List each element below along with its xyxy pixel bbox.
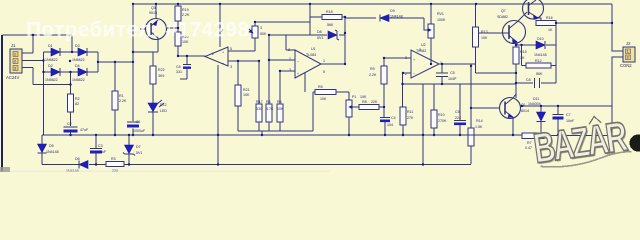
transistor Q3 9015 [146, 4, 167, 40]
svg-text:1N4148: 1N4148 [46, 150, 59, 154]
svg-text:5: 5 [323, 70, 325, 74]
wire U2 minus input [403, 72, 411, 74]
svg-text:1N5822: 1N5822 [72, 58, 85, 62]
wire J1 pin2 [22, 60, 44, 62]
zener D8 5V1 [269, 30, 345, 40]
resistor R11 27K [400, 107, 414, 135]
wire U1 pin8 stub [286, 35, 295, 50]
wire bottom bus [42, 164, 471, 166]
wire J1 pin3 [22, 68, 71, 85]
wire U2 minus leg [402, 73, 404, 107]
wire bus vertical link 1 [217, 65, 219, 165]
capacitor C2 47uF [64, 122, 89, 135]
svg-text:1: 1 [627, 50, 629, 54]
svg-text:10K: 10K [320, 97, 327, 101]
svg-text:100K: 100K [437, 18, 446, 22]
svg-text:R11: R11 [407, 110, 413, 114]
diode D3 1N5822 [72, 44, 87, 62]
svg-text:R21: R21 [243, 88, 250, 92]
LED D12 [148, 100, 167, 135]
diode D2 1N5822 [45, 64, 60, 82]
svg-text:+: + [222, 51, 224, 55]
wire right mini vertical [555, 23, 557, 83]
potentiometer P1 10K [346, 92, 367, 135]
svg-text:C5: C5 [450, 71, 455, 75]
svg-text:3K9: 3K9 [158, 74, 164, 78]
svg-text:5: 5 [230, 47, 232, 51]
svg-text:R8: R8 [362, 100, 367, 104]
svg-text:3: 3 [230, 65, 232, 69]
wire C5b top [459, 84, 461, 120]
transistor Q7 top [523, 0, 544, 20]
watermark bazar dot [630, 135, 640, 152]
wire bridge right rail [97, 52, 99, 72]
svg-text:D3: D3 [75, 44, 80, 48]
svg-text:D8: D8 [317, 30, 322, 34]
wire Q7 links [517, 12, 541, 45]
svg-text:U1: U1 [311, 47, 316, 51]
svg-text:10K: 10K [481, 36, 488, 40]
zener D7 5V1 [123, 135, 142, 165]
potentiometer RV1 100K [424, 4, 446, 64]
wire Q3 collector row [133, 51, 158, 53]
svg-text:Потребител: #174298: Потребител: #174298 [26, 19, 249, 42]
op-amp U3 [205, 29, 232, 69]
svg-text:330: 330 [256, 107, 262, 111]
svg-text:224: 224 [455, 116, 461, 120]
svg-text:10K: 10K [243, 93, 250, 97]
svg-text:56K: 56K [536, 72, 543, 76]
wire R5 left leg [312, 92, 314, 131]
svg-text:R19: R19 [182, 8, 189, 12]
resistor R14 1.5K [468, 119, 483, 164]
svg-text:R10: R10 [438, 113, 445, 117]
wire AC top run [3, 35, 73, 52]
svg-text:0.47: 0.47 [525, 146, 532, 150]
svg-text:56K: 56K [327, 23, 334, 27]
svg-text:4.7K: 4.7K [266, 107, 274, 111]
wire bridge bottom rail [44, 71, 99, 73]
svg-text:D9: D9 [390, 9, 395, 13]
svg-text:104: 104 [387, 123, 393, 127]
wire Q3 collector down [157, 40, 159, 52]
wire base to divider [140, 28, 178, 29]
svg-text:R7: R7 [527, 141, 532, 145]
svg-text:2: 2 [212, 52, 214, 56]
svg-text:1: 1 [323, 59, 325, 63]
svg-text:1N5822: 1N5822 [45, 78, 58, 82]
svg-text:2.2K: 2.2K [369, 73, 377, 77]
wire feedback right vertical [344, 17, 346, 64]
wire U1 plus input [280, 70, 295, 72]
resistor R15 1K [513, 45, 527, 98]
diode D9 1N4148 [345, 9, 424, 22]
photo left edge line [1, 35, 3, 172]
svg-text:8014: 8014 [521, 109, 529, 113]
resistor R2 82 [68, 94, 80, 126]
resistor R16 1K [536, 16, 556, 32]
svg-text:AC24V: AC24V [6, 75, 19, 80]
svg-text:+: + [413, 58, 415, 62]
resistor R1 2.2K [112, 91, 127, 135]
resistor R22 3K9 [150, 52, 165, 103]
svg-text:D7: D7 [136, 145, 141, 149]
wire upper mid row [255, 21, 310, 23]
wire output chain vertical [470, 64, 472, 128]
svg-text:3: 3 [260, 26, 262, 30]
svg-text:C7: C7 [566, 113, 571, 117]
wire emitter row R16 [556, 22, 612, 24]
svg-text:J2: J2 [626, 41, 631, 46]
svg-text:1N4148: 1N4148 [390, 15, 403, 19]
svg-text:1N4148: 1N4148 [534, 53, 547, 57]
svg-text:+: + [297, 72, 299, 76]
svg-text:10K: 10K [360, 95, 367, 99]
resistor R17 330 [256, 61, 263, 131]
wire U2 output [439, 63, 476, 65]
svg-text:J1: J1 [11, 43, 16, 48]
svg-text:R9: R9 [370, 67, 375, 71]
wire Q1 collector [513, 94, 516, 98]
svg-text:22K: 22K [371, 100, 378, 104]
svg-text:R17: R17 [256, 100, 263, 104]
svg-text:−: − [222, 62, 224, 66]
svg-text:LED: LED [160, 109, 167, 113]
svg-text:1000uF: 1000uF [133, 129, 146, 133]
wire bridge lower mid [70, 72, 72, 94]
resistor R18 56K [310, 10, 345, 27]
svg-text:TL082: TL082 [416, 49, 426, 53]
svg-text:R6: R6 [277, 100, 282, 104]
svg-text:2.2K: 2.2K [119, 99, 127, 103]
resistor R3 220 [106, 157, 124, 173]
resistor R5 10K [313, 85, 349, 101]
connector J2 CON2 [620, 41, 635, 68]
svg-text:1: 1 [14, 53, 16, 57]
svg-text:1N5822: 1N5822 [45, 58, 58, 62]
diode D5 1N4148 [38, 135, 59, 165]
svg-text:Q3: Q3 [151, 6, 156, 10]
wire J1 pin1 [22, 35, 33, 53]
wire right mid row [520, 105, 612, 107]
wire mid ground bus [42, 134, 522, 136]
resistor R13 10K [473, 4, 488, 73]
svg-text:CON2: CON2 [620, 63, 632, 68]
svg-text:C1: C1 [136, 120, 141, 124]
svg-text:U2: U2 [421, 43, 426, 47]
capacitor C5 224 [454, 110, 466, 135]
svg-text:3: 3 [14, 67, 16, 71]
svg-text:C8: C8 [526, 78, 531, 82]
wire main left vertical [132, 4, 134, 135]
svg-text:2: 2 [627, 56, 629, 60]
watermark bazar logo [531, 112, 633, 174]
svg-text:1N5822: 1N5822 [72, 78, 85, 82]
diode D10 1N4148 [516, 37, 556, 57]
wire resistor bottoms [238, 130, 313, 132]
wire U3 power pin [219, 4, 221, 47]
capacitor C1 1000uF [127, 120, 146, 133]
svg-text:C2: C2 [67, 122, 72, 126]
svg-text:9015: 9015 [149, 11, 157, 15]
svg-text:D2: D2 [48, 64, 53, 68]
svg-text:331: 331 [176, 70, 182, 74]
wire top bus [133, 3, 612, 5]
svg-text:C6: C6 [176, 65, 181, 69]
svg-text:R2: R2 [75, 97, 80, 101]
wire U3 minus input [228, 60, 259, 62]
wire feedback row [403, 84, 517, 110]
svg-text:10K: 10K [277, 107, 284, 111]
svg-text:D10: D10 [537, 37, 544, 41]
resistor R12 56K [522, 45, 557, 76]
svg-text:D12: D12 [160, 103, 167, 107]
wire Q1 base [471, 107, 500, 109]
wire bridge top rail [44, 51, 99, 53]
wire right drop to J2 pin1 [612, 4, 623, 51]
connector J1 [6, 43, 22, 80]
diode D11 1N4004 [528, 97, 546, 135]
wire U3 plus input [228, 50, 255, 52]
op-amp U1 TL084 [288, 47, 325, 78]
wire Q3 base link [140, 28, 146, 30]
svg-text:R12: R12 [535, 59, 542, 63]
resistor R21 10K [235, 61, 250, 131]
wire U1 minus input [269, 59, 295, 61]
wire U1 output [321, 63, 345, 65]
svg-text:1.5K: 1.5K [475, 125, 483, 129]
wire J2 pin2 run [612, 57, 623, 135]
wire U1 power down [304, 73, 306, 92]
svg-text:47uF: 47uF [80, 128, 89, 132]
resistor R20 10K [175, 21, 189, 56]
svg-text:104P: 104P [448, 77, 457, 81]
wire feedback left vertical [309, 4, 311, 35]
svg-text:R16: R16 [546, 16, 553, 20]
trimmer 50K [249, 22, 267, 51]
diode D6 1N4148 [66, 157, 88, 173]
svg-text:SD882: SD882 [497, 15, 508, 19]
wire bridge left rail [43, 52, 45, 135]
capacitor C7 10nF [553, 106, 575, 135]
resistor R9 2.2K [369, 58, 387, 117]
resistor R10 270K [431, 110, 447, 135]
svg-text:C3: C3 [98, 144, 103, 148]
svg-text:D5: D5 [49, 144, 54, 148]
capacitor C6 331 [176, 56, 191, 79]
svg-text:P1: P1 [352, 95, 356, 99]
svg-text:RV1: RV1 [437, 12, 444, 16]
svg-text:1K: 1K [520, 56, 525, 60]
svg-text:R18: R18 [326, 10, 333, 14]
capacitor C4 104 [380, 116, 396, 135]
wire bus vertical link 2 [422, 84, 424, 165]
svg-text:47uF: 47uF [98, 150, 107, 154]
svg-text:R3: R3 [111, 157, 116, 161]
svg-text:−: − [413, 72, 415, 76]
op-amp U2 TL082 [405, 43, 442, 78]
svg-text:270K: 270K [438, 119, 447, 123]
svg-text:Q7: Q7 [501, 9, 506, 13]
transistor Q2 SD882 [497, 9, 526, 44]
svg-text:2.2K: 2.2K [182, 13, 190, 17]
svg-text:R4: R4 [266, 100, 271, 104]
wire R1 top [114, 62, 116, 91]
wire bridge output tap [98, 61, 133, 63]
diode D4 1N5822 [72, 64, 87, 82]
transistor Q1 8014 [500, 98, 530, 119]
diode D1 1N5822 [45, 44, 60, 62]
svg-text:C5: C5 [455, 110, 460, 114]
capacitor C3 47uF [90, 135, 107, 165]
svg-text:5V1: 5V1 [317, 36, 323, 40]
svg-text:R15: R15 [520, 50, 527, 54]
wire U2 plus input [384, 57, 411, 59]
resistor R6 10K [277, 71, 284, 131]
svg-text:D1: D1 [48, 44, 53, 48]
svg-text:1K: 1K [548, 28, 553, 32]
wire bottoms to bus [261, 131, 263, 135]
resistor R8 22K [356, 100, 384, 110]
svg-text:5V1: 5V1 [136, 151, 142, 155]
svg-text:2: 2 [14, 60, 16, 64]
photo bottom edge [0, 171, 330, 173]
capacitor C5 104P [436, 64, 457, 84]
svg-text:1N4004: 1N4004 [528, 102, 541, 106]
resistor R4 4.7K [266, 35, 274, 131]
svg-text:C4: C4 [391, 116, 396, 120]
wire R13 bottom row [476, 72, 517, 74]
svg-text:D4: D4 [75, 64, 80, 68]
svg-text:R22: R22 [158, 68, 165, 72]
svg-text:27K: 27K [407, 116, 414, 120]
svg-text:82: 82 [75, 102, 79, 106]
svg-text:R5: R5 [318, 85, 323, 89]
svg-text:D6: D6 [75, 157, 80, 161]
svg-text:−: − [297, 60, 299, 64]
wire Q2 base row [479, 32, 510, 34]
svg-text:D11: D11 [533, 97, 539, 101]
resistor R7 0.47 [522, 133, 612, 150]
svg-text:TL084: TL084 [306, 53, 316, 57]
resistor R19 2.2K [175, 4, 190, 21]
capacitor C8 [516, 78, 556, 88]
svg-text:50K: 50K [260, 32, 267, 36]
wire op-amp U3 output row [178, 55, 205, 57]
svg-text:R1: R1 [119, 94, 124, 98]
wire Q1 emitter down [512, 118, 514, 136]
svg-text:R14: R14 [476, 119, 483, 123]
